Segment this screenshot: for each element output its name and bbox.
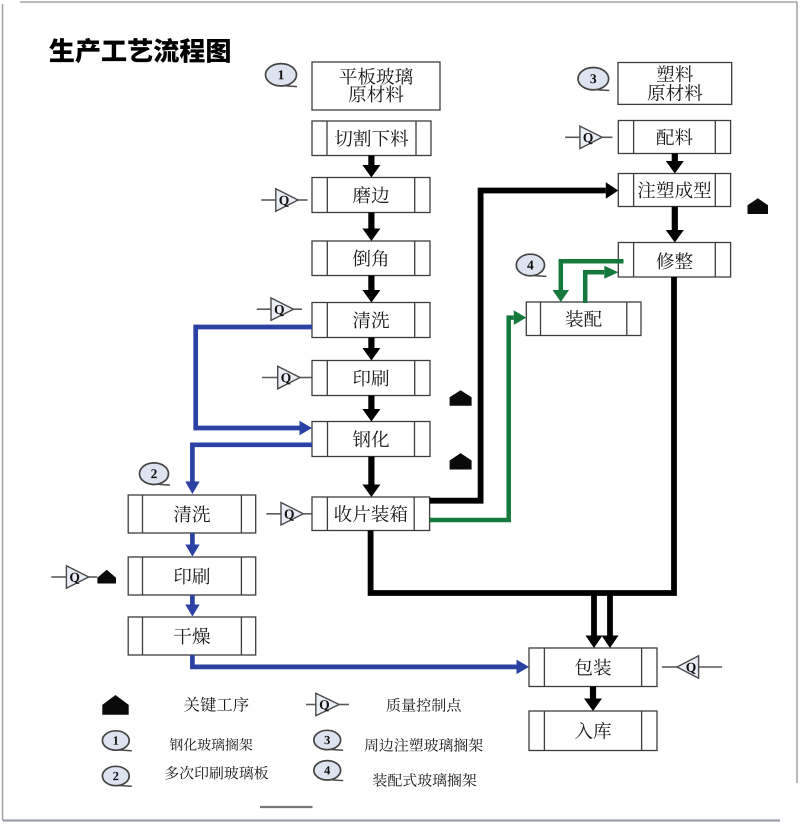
arrow 印刷-left to 干燥 (blue) [190,595,195,605]
arrow 清洗 to 印刷 [362,338,380,361]
legend marker 3 [314,730,341,749]
process box 修整 [618,243,730,278]
callout marker 2 [140,463,169,485]
key process marker above 钢化 [450,390,472,406]
quality control point at 收片装箱 [266,513,281,515]
key process marker at 注塑成型 [748,198,769,214]
process box 印刷 [312,361,430,396]
wire 收片装箱 to 装配 (green) [430,318,514,520]
arrow 磨边 to 倒角 [362,213,380,242]
legend key process symbol [102,695,128,715]
process box 注塑成型 [618,174,730,207]
process box 干燥 [128,617,256,655]
process box 收片装箱 [312,497,430,531]
quality control point at 印刷-left [51,576,66,578]
key process marker at 印刷-left [97,570,116,584]
process box 印刷 (left) [128,557,256,595]
divider line [260,806,313,808]
process box 切割下料 [312,121,431,156]
legend label 钢化玻璃搁架 [170,738,253,751]
quality control point at 磨边 [261,199,275,201]
quality control point at 配料 [565,136,580,138]
title 生产工艺流程图 [49,38,230,63]
wire 钢化 to 清洗-left (blue) [192,445,312,482]
process box 钢化 [312,422,430,457]
callout marker 4 [516,254,544,276]
process box 清洗 [312,303,430,338]
terminal box 平板玻璃原材料 [312,62,440,110]
legend label 多次印刷玻璃板 [165,766,268,780]
arrow 注塑成型 to 修整 [666,207,684,243]
quality control point at 印刷 [262,377,278,379]
legend quality control symbol [306,704,316,706]
callout marker 1 [266,64,297,86]
wire 装配 to 修整 (green) [585,272,604,303]
legend marker 1 [102,731,129,750]
wire junction to 包装 (right stub) [607,593,613,636]
legend label 装配式玻璃搁架 [373,773,476,787]
legend marker 2 [102,766,129,785]
quality control point at 清洗 [257,308,271,310]
arrow 钢化 to 收片装箱 [362,457,380,498]
process box 装配 [526,302,641,336]
process box 入库 [529,711,657,751]
arrow 清洗-left to 印刷-left (blue) [190,533,195,545]
arrow 倒角 to 清洗 [362,276,380,303]
wire 收片装箱 to 注塑成型 [430,191,606,501]
process box 倒角 [312,241,430,276]
wire 清洗 to 钢化 (blue) [196,327,312,428]
wire junction horizontal [371,531,677,594]
process box 磨边 [312,178,430,213]
wire 修整 to 装配 (green) [561,261,624,290]
wire 修整 down to junction [671,277,677,590]
arrow 包装 to 入库 [584,687,602,712]
wire junction to 包装 (left stub) [591,593,597,636]
process box 清洗 (left) [128,495,256,533]
legend marker 4 [314,761,341,780]
arrow 切割下料 to 磨边 [362,156,380,178]
arrow 印刷 to 钢化 [362,396,380,422]
legend label 关键工序 [184,697,248,712]
callout marker 3 [578,68,609,90]
wire 干燥 to 包装 (blue) [192,655,516,667]
arrow 配料 to 注塑成型 [666,154,684,174]
legend label 质量控制点 [386,698,460,712]
legend label 周边注塑玻璃搁架 [365,738,483,752]
key process marker above 收片装箱 [450,453,472,469]
quality control point at 包装 (mirrored) [662,666,677,668]
terminal box 塑料原材料 [618,63,732,105]
process box 包装 [529,648,657,687]
process box 配料 [618,121,730,154]
